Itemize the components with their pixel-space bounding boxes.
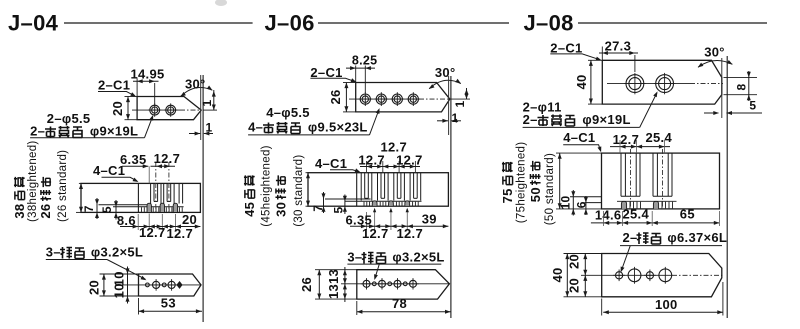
svg-text:75: 75 — [500, 188, 515, 203]
J-06 bottom ext top — [315, 269, 357, 271]
J-06 bottom view plate — [357, 270, 450, 299]
J-08 bottom ream hole 1 — [616, 272, 623, 279]
J-04 crimp tab 2 — [160, 203, 164, 212]
J-08 dim 8 line — [748, 71, 750, 101]
svg-text:1: 1 — [453, 101, 467, 108]
J-06 crimp tab 3 — [405, 201, 410, 206]
J-08 dim 5 line — [704, 112, 718, 114]
J-08 crimp tab 2 — [653, 201, 658, 209]
svg-text:2–C1: 2–C1 — [98, 78, 130, 93]
svg-text:30°: 30° — [185, 77, 206, 92]
J-08 leader 2-C1 — [550, 54, 600, 60]
J-04 dim 6.35 line — [122, 165, 148, 167]
J-04 comb wall right — [178, 183, 180, 203]
svg-text:2–: 2– — [30, 124, 45, 139]
J-04 dim 53 ext left — [138, 298, 140, 315]
svg-text:65: 65 — [680, 207, 695, 222]
J-04 dim 20 line — [127, 97, 129, 120]
svg-text:12.7: 12.7 — [396, 153, 423, 168]
svg-text:4–C1: 4–C1 — [315, 156, 347, 171]
J-04 finger centerline 1 — [155, 162, 157, 213]
J-08 crimp hatch strip — [629, 202, 631, 209]
svg-text:25.4: 25.4 — [646, 130, 673, 145]
J-08 bottom cyl hole 1 — [628, 269, 641, 282]
J-08 top dim line — [610, 146, 670, 148]
J-06 top centerline — [349, 98, 419, 100]
J-08 dim 40 line — [590, 60, 592, 104]
J-06 finger centerline 1 — [366, 161, 368, 173]
J-08 leader 4-C1 mid — [563, 145, 600, 151]
J-06 leader 4-C1 mid — [330, 170, 359, 172]
J-04 hole phi5.5 #1 top view — [150, 105, 160, 115]
J-08 top centerline — [607, 83, 690, 85]
J-06 bottom cyl holes — [363, 280, 370, 287]
J-04 dim 1 top ext — [203, 109, 217, 111]
svg-text:(30 standard): (30 standard) — [293, 154, 305, 226]
J-06 tab shelf line 5-level — [345, 200, 422, 202]
svg-text:12.7: 12.7 — [154, 151, 181, 166]
J-06 angle 30deg arc — [429, 80, 461, 88]
J-04 dim 10 10 line — [127, 267, 129, 304]
J-06 dim 1 top line — [466, 88, 468, 99]
J-04 crimp tab 3 — [173, 203, 177, 212]
svg-text:J–04: J–04 — [8, 11, 59, 36]
svg-text:3–: 3– — [46, 245, 61, 260]
J-04 bottom ream hole 3 diamond — [177, 282, 182, 288]
svg-text:J–08: J–08 — [524, 11, 574, 36]
J-08 bottom ext bottom — [564, 296, 602, 298]
J-08 bottom ream hole 2 — [646, 272, 653, 279]
svg-text:4–φ5.5: 4–φ5.5 — [266, 105, 310, 120]
J-06 slot ext lines — [374, 209, 376, 230]
J-06 bottom ext bottom — [315, 298, 357, 300]
J-04 crimp tab 1 — [147, 203, 151, 212]
J-06 dim 5 line — [344, 195, 346, 215]
J-06 finger centerline 3 — [398, 161, 400, 173]
J-04 dim 14.95 ext right — [154, 83, 156, 105]
J-04 dim 20 ext — [125, 96, 138, 98]
J-06 top dim line — [360, 166, 420, 168]
svg-text:45: 45 — [242, 202, 257, 217]
J-04 dim 14.95 ext left — [136, 79, 138, 97]
J-06 comb towers — [360, 173, 362, 201]
J-08 leader 2-cyl-hole — [523, 126, 640, 128]
J-04 dim 5 line — [115, 200, 117, 220]
J-08 comb tower 1 — [620, 153, 622, 196]
J-04 top view plate outline — [137, 97, 201, 120]
J-04 bottom dim line — [120, 226, 200, 228]
J-08 hole phi11 #2 — [656, 75, 674, 93]
svg-text:2–φ5.5: 2–φ5.5 — [47, 111, 91, 126]
J-08 hole phi11 #1 — [626, 75, 644, 93]
J-08 dim 10 line — [572, 190, 574, 216]
J-06 bottom dim arrows — [361, 224, 367, 228]
J-06 hole phi5.5 #3 — [392, 94, 402, 104]
J-06 hole phi5.5 #2 — [376, 94, 386, 104]
J-04 bottom ext top — [100, 273, 139, 275]
J-06 finger centerline 4 — [414, 161, 416, 173]
J-08 comb tower 2 — [652, 153, 654, 196]
J-06 dim 26 line — [345, 83, 347, 112]
J-04 dim 12.7 top line — [151, 165, 176, 167]
svg-text:20: 20 — [110, 101, 125, 116]
J-06 crimp hatch strip — [363, 202, 365, 206]
svg-text:25.4: 25.4 — [623, 207, 650, 222]
J-08 bottom dim exts — [603, 211, 605, 226]
svg-text:27.3: 27.3 — [605, 39, 632, 54]
J-04 top view centerline — [132, 109, 180, 111]
J-06 dim 8.25 line — [346, 67, 375, 69]
J-04 projection line — [202, 75, 204, 322]
svg-text:20: 20 — [567, 254, 582, 269]
J-04 dim 1 top line — [213, 90, 215, 110]
J-08 bottom cyl hole 2 — [659, 269, 672, 282]
J-06 hole phi5.5 #1 — [360, 94, 370, 104]
header rule 1 — [64, 22, 253, 24]
svg-text:6.35: 6.35 — [120, 152, 147, 167]
svg-text:(45heightened): (45heightened) — [261, 145, 273, 227]
J-04 leader cyl-hole — [30, 137, 144, 139]
svg-text:30°: 30° — [435, 65, 456, 80]
svg-text:50: 50 — [528, 187, 543, 202]
J-04 tab shelf line 7-level — [99, 204, 148, 206]
J-06 dim 8.25 ext — [355, 66, 357, 83]
svg-text:26: 26 — [38, 204, 53, 219]
J-04 bottom ext bottom — [100, 295, 139, 297]
J-06 hole phi5.5 #4 — [408, 94, 418, 104]
J-08 bottom view plate — [602, 254, 722, 297]
J-08 top view plate outline — [602, 60, 722, 104]
scan smudge — [215, 0, 227, 6]
J-04 dim 53 line — [139, 310, 203, 312]
J-06 dim 26 ext — [343, 82, 356, 84]
J-08 top dim ticks — [619, 140, 621, 153]
svg-text:φ9×19L: φ9×19L — [579, 112, 631, 127]
svg-text:2–: 2– — [623, 230, 638, 245]
J-08 shelf line 10-level — [570, 196, 602, 198]
svg-text:1: 1 — [452, 111, 459, 125]
svg-text:1: 1 — [206, 121, 213, 135]
svg-text:12.7: 12.7 — [613, 132, 640, 147]
J-06 dim 78 ext left — [356, 301, 358, 315]
J-04 dim 7 line — [96, 198, 98, 219]
J-04 front view body — [81, 183, 200, 212]
svg-text:J–06: J–06 — [265, 11, 315, 36]
svg-text:12.7: 12.7 — [362, 226, 389, 241]
J-06 bottom centerline — [341, 283, 449, 285]
J-06 crimp tab 2 — [389, 201, 394, 206]
J-08 plate edge line — [721, 58, 723, 118]
J-04 dim 1 bottom line — [189, 133, 200, 135]
svg-text:φ9×19L: φ9×19L — [86, 124, 138, 139]
J-04 crimp hatch strip — [141, 207, 143, 212]
J-06 dim 78 line — [357, 311, 451, 313]
J-08 front height dim — [559, 153, 561, 209]
J-06 dim 26 bottom line — [318, 270, 320, 299]
J-04 slot ext line 3 — [174, 214, 176, 230]
J-08 finger centerline 2 — [662, 149, 664, 209]
J-06 finger centerline 2 — [382, 161, 384, 173]
svg-text:4–: 4– — [248, 120, 263, 135]
J-06 plate edge view line — [448, 76, 450, 135]
svg-text:5: 5 — [749, 99, 756, 113]
J-04 leader 3-ream-hole — [46, 259, 107, 261]
J-04 comb tower 2 — [163, 183, 165, 203]
svg-text:5: 5 — [100, 206, 114, 213]
J-08 dim 8 exts — [724, 76, 758, 78]
J-08 shelf line 6-level — [585, 202, 602, 204]
J-04 dim 20 bottom line — [103, 274, 105, 296]
J-06 front height dim arrows — [306, 173, 310, 179]
J-04 bottom view plate — [139, 274, 202, 296]
J-06 projection line — [450, 76, 452, 318]
svg-text:14.95: 14.95 — [131, 67, 165, 82]
J-06 bottom dim line — [350, 225, 448, 227]
svg-text:20: 20 — [87, 280, 102, 295]
J-06 comb block left edge — [356, 173, 358, 207]
J-04 bottom dim arrows — [133, 225, 139, 229]
J-08 dim 40 ext — [588, 59, 602, 61]
svg-text:4–C1: 4–C1 — [563, 130, 595, 145]
J-06 dim 13 13 line — [344, 267, 346, 302]
J-04 bottom cyl hole 2 — [168, 281, 175, 288]
svg-text:13: 13 — [326, 269, 341, 284]
svg-text:10: 10 — [112, 283, 127, 298]
svg-text:26: 26 — [299, 277, 314, 292]
J-04 comb tower 1 — [150, 183, 152, 203]
header rule 2 — [318, 22, 509, 24]
svg-text:39: 39 — [422, 212, 437, 227]
svg-text:φ9.5×23L: φ9.5×23L — [304, 120, 368, 135]
J-08 bottom centerline — [581, 274, 672, 276]
svg-text:3–: 3– — [347, 250, 362, 265]
svg-text:7: 7 — [82, 205, 96, 212]
J-08 strip line — [617, 200, 677, 202]
J-06 dim 1 bottom line — [437, 120, 448, 122]
svg-text:1: 1 — [200, 100, 214, 107]
svg-text:26: 26 — [328, 89, 343, 104]
J-04 slot ext line 1 — [148, 166, 150, 183]
J-08 bottom ext top — [564, 253, 602, 255]
J-06 leader 3-ream-hole — [347, 263, 441, 265]
J-06 crimp tab 1 — [372, 201, 377, 206]
J-08 projection line — [726, 56, 728, 318]
J-04 dim 14.95 line — [133, 80, 159, 82]
svg-text:30°: 30° — [704, 45, 725, 60]
J-06 dim 7 line — [323, 192, 325, 213]
J-04 bottom ream hole 1 — [146, 283, 150, 287]
J-08 crimp tab 1 — [621, 201, 626, 209]
svg-text:8.25: 8.25 — [352, 54, 378, 68]
svg-text:2–C1: 2–C1 — [310, 65, 342, 80]
J-08 dim 6 line — [585, 196, 587, 215]
J-08 dim 27.3 line — [599, 52, 638, 54]
J-04 leader 2-C1 — [98, 92, 135, 96]
J-08 dim 100 line — [603, 311, 723, 313]
svg-text:78: 78 — [392, 296, 407, 311]
svg-text:40: 40 — [574, 74, 589, 89]
svg-text:12.7: 12.7 — [139, 225, 166, 240]
J-04 comb block left edge — [137, 183, 139, 212]
J-08 bottom dim arrows — [604, 221, 610, 225]
svg-text:(75heightened): (75heightened) — [516, 142, 528, 224]
svg-text:5: 5 — [332, 207, 346, 214]
J-06 leader 4-cyl-hole — [248, 134, 369, 136]
J-08 dim 20 20 line — [584, 254, 586, 297]
J-04 bottom centerline — [124, 284, 202, 286]
svg-text:12.7: 12.7 — [397, 226, 424, 241]
svg-text:20: 20 — [182, 212, 197, 227]
svg-text:12.7: 12.7 — [167, 226, 194, 241]
J-06 leader 2-C1 — [310, 78, 355, 81]
header rule 3 — [578, 22, 767, 24]
J-04 tab shelf line 5-level — [113, 206, 184, 208]
J-06 front view body — [308, 173, 448, 207]
J-04 angle 30deg arc — [181, 87, 213, 96]
J-04 bottom dim ext left-edge — [137, 214, 139, 230]
J-06 tab shelf line 7-level — [325, 198, 371, 200]
svg-text:40: 40 — [550, 267, 565, 282]
svg-text:2–C1: 2–C1 — [550, 41, 582, 56]
svg-text:2–: 2– — [523, 112, 538, 127]
svg-text:13: 13 — [326, 284, 341, 299]
J-08 bottom dim line — [591, 222, 720, 224]
svg-text:φ6.37×6L: φ6.37×6L — [664, 230, 728, 245]
svg-text:10: 10 — [559, 196, 573, 210]
J-04 leader 4-C1 mid — [102, 177, 138, 181]
svg-text:(50 standard): (50 standard) — [544, 153, 556, 225]
J-04 front view height dim — [79, 183, 83, 189]
J-04 bottom ream hole 2 — [162, 283, 166, 287]
svg-text:38: 38 — [12, 204, 27, 219]
J-08 front view body — [602, 153, 720, 209]
J-04 bottom cyl hole 1 — [153, 281, 160, 288]
J-04 slot ext line 2 — [161, 214, 163, 230]
J-04 plate edge view line — [200, 75, 202, 140]
J-08 front height exts — [556, 152, 602, 154]
svg-text:53: 53 — [161, 296, 176, 311]
J-06 dim 1 top ext — [450, 98, 470, 100]
svg-text:14.6: 14.6 — [595, 208, 622, 223]
J-08 dim 40 bottom line — [566, 254, 568, 297]
svg-text:8: 8 — [735, 84, 749, 91]
svg-text:30: 30 — [274, 202, 289, 217]
J-06 top view plate outline — [356, 83, 450, 112]
svg-text:φ3.2×5L: φ3.2×5L — [389, 250, 445, 265]
J-08 angle 30deg arc — [698, 61, 732, 68]
J-04 hole phi5.5 #2 top view — [166, 105, 176, 115]
svg-text:100: 100 — [655, 297, 678, 312]
J-08 dim 100 exts — [601, 299, 603, 316]
J-08 finger centerline 1 — [630, 149, 632, 209]
svg-text:20: 20 — [567, 278, 582, 293]
J-04 finger centerline 2 — [168, 162, 170, 213]
J-08 leader 2-ream-hole — [620, 245, 722, 247]
svg-text:(26 standard): (26 standard) — [57, 150, 69, 222]
svg-text:φ3.2×5L: φ3.2×5L — [87, 245, 143, 260]
J-06 bottom ream holes — [372, 282, 376, 286]
J-08 dim 27.3 ext — [601, 47, 603, 61]
